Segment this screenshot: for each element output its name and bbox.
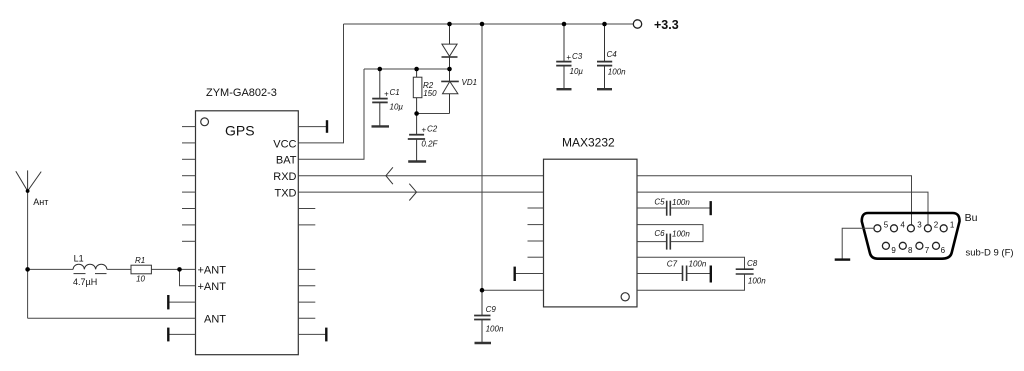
diode VD1 [441, 69, 459, 114]
svg-text:10µ: 10µ [390, 102, 404, 111]
svg-text:100n: 100n [672, 198, 690, 207]
wire TXD GPS to MAX [298, 191, 543, 193]
svg-text:+ANT: +ANT [198, 281, 227, 293]
IC U2 MAX3232 box [544, 159, 638, 307]
svg-text:6: 6 [941, 246, 946, 255]
MAX3232 left barred pin [515, 267, 544, 281]
svg-text:GPS: GPS [225, 123, 255, 139]
svg-text:4.7µH: 4.7µH [73, 277, 97, 287]
node antenna-L1 [25, 267, 30, 272]
svg-text:sub-D 9 (F): sub-D 9 (F) [966, 248, 1014, 259]
wire node A horizontal [364, 68, 450, 70]
svg-text:+ANT: +ANT [198, 264, 227, 276]
svg-text:+3.3: +3.3 [654, 18, 679, 32]
inductor L1 [73, 264, 107, 273]
svg-text:C2: C2 [427, 124, 438, 133]
svg-text:MAX3232: MAX3232 [562, 136, 615, 150]
sub-D pin 2 [924, 225, 931, 232]
svg-text:10: 10 [136, 274, 145, 283]
wire sub-D pin5 to ground [842, 228, 874, 259]
wire RXD GPS to MAX [298, 175, 543, 177]
ground bar at sub-D [835, 258, 851, 260]
svg-text:C3: C3 [572, 52, 583, 61]
svg-text:100n: 100n [689, 260, 707, 269]
svg-text:+: + [384, 90, 389, 99]
svg-text:Bu: Bu [965, 212, 978, 224]
sub-D pin 6 [933, 242, 940, 249]
node rail-D1 [447, 22, 452, 27]
sub-D pin 9 [882, 242, 889, 249]
node A VD1 [447, 67, 452, 72]
node junction dots [25, 22, 607, 293]
capacitor C1 [372, 69, 390, 126]
svg-text:C7: C7 [667, 260, 678, 269]
GPS top-right pin with bar [298, 120, 327, 133]
capacitor C2 [408, 114, 426, 162]
GPS left barred pin upper [168, 295, 195, 309]
svg-text:9: 9 [891, 246, 896, 255]
capacitor C5 [637, 201, 711, 216]
svg-text:10µ: 10µ [570, 67, 584, 76]
svg-text:C6: C6 [654, 229, 665, 238]
capacitor C7 [637, 266, 711, 283]
svg-text:ANT: ANT [204, 313, 226, 325]
svg-text:5: 5 [884, 220, 889, 229]
IC U1 GPS module box [196, 111, 299, 355]
svg-text:150: 150 [423, 89, 437, 98]
GPS pin-1 circle [201, 118, 209, 126]
arrow TXD right chevron [409, 184, 416, 201]
svg-text:C4: C4 [607, 50, 618, 59]
svg-text:C8: C8 [747, 259, 758, 268]
svg-text:C9: C9 [486, 305, 497, 314]
wire antenna stem [27, 191, 29, 318]
sub-D pin 1 [940, 225, 947, 232]
svg-text:C5: C5 [654, 198, 665, 207]
node A BAT-C1 [378, 67, 383, 72]
terminal +3.3 [633, 20, 641, 28]
svg-text:Ант: Ант [33, 197, 48, 207]
resistor R1 [131, 265, 151, 274]
node A R2 [414, 67, 419, 72]
svg-text:100n: 100n [672, 230, 690, 239]
wire C9 node to MAX3232 pin [482, 289, 544, 291]
GPS left barred pin lower [168, 328, 195, 342]
svg-text:4: 4 [900, 220, 905, 229]
MAX3232 left pin stubs [528, 208, 544, 257]
GPS right pin stubs [298, 209, 315, 319]
svg-text:7: 7 [925, 246, 930, 255]
wire +ANT jumper [180, 269, 196, 285]
wire R1 to GPS +ANT [151, 268, 195, 270]
svg-text:VCC: VCC [273, 138, 296, 150]
node rail-C3 [562, 22, 567, 27]
node antenna vertex [26, 189, 30, 193]
wire to L1 [28, 268, 74, 270]
sub-D pin numbers [884, 220, 955, 255]
wire ANT line [28, 317, 196, 319]
node rail-C9riser [480, 22, 485, 27]
capacitor C6 loop [637, 225, 703, 250]
sub-D pin 5 [874, 225, 881, 232]
svg-text:R1: R1 [135, 256, 145, 265]
GPS bottom-right pin with bar [298, 328, 326, 342]
svg-text:L1: L1 [74, 253, 84, 263]
svg-text:BAT: BAT [276, 155, 297, 167]
wire TXD MAX to sub-D pin2 [637, 192, 928, 225]
GPS left pin stubs [182, 127, 196, 242]
capacitor C8 loop [637, 257, 754, 290]
svg-text:VD1: VD1 [462, 78, 478, 87]
wire RXD MAX to sub-D pin3 [637, 176, 912, 225]
arrow RXD left chevron [386, 167, 393, 184]
svg-text:+: + [566, 53, 571, 62]
svg-text:1: 1 [950, 220, 955, 229]
node C9 junction [480, 288, 485, 293]
sub-D pin 7 [916, 242, 923, 249]
diode D1 [442, 24, 458, 69]
node rail-C4 [602, 22, 607, 27]
svg-text:0.2F: 0.2F [421, 139, 438, 148]
node B R2-C2 [414, 111, 419, 116]
sub-D pin 8 [899, 242, 906, 249]
sub-D pin 4 [891, 225, 898, 232]
svg-text:3: 3 [917, 220, 922, 229]
wire L1 to R1 [107, 268, 131, 270]
svg-text:ZYM-GA802-3: ZYM-GA802-3 [206, 87, 277, 99]
wire +3.3 top rail [344, 23, 634, 25]
wire rail to C9 node [481, 24, 483, 290]
sub-D pin 3 [907, 225, 914, 232]
svg-text:100n: 100n [608, 67, 626, 76]
capacitor C9 [474, 290, 491, 343]
MAX3232 pin-1 circle [621, 293, 629, 301]
svg-text:RXD: RXD [273, 171, 296, 183]
svg-text:8: 8 [908, 246, 913, 255]
antenna [16, 170, 41, 191]
svg-text:TXD: TXD [275, 188, 297, 200]
svg-text:100n: 100n [486, 325, 504, 334]
svg-text:C1: C1 [390, 88, 400, 97]
svg-text:2: 2 [934, 220, 939, 229]
connector Bu sub-D 9 shell [862, 213, 960, 259]
capacitor C4 [597, 24, 612, 89]
node R1-ANT pins [177, 267, 182, 272]
wire VD1 bottom to node B [417, 113, 450, 115]
wire VCC to rail [298, 24, 343, 143]
resistor R2 [413, 69, 422, 114]
wire BAT to node A [298, 69, 364, 159]
svg-text:100n: 100n [748, 277, 766, 286]
capacitor C3 [556, 24, 571, 89]
svg-text:+: + [421, 126, 426, 135]
